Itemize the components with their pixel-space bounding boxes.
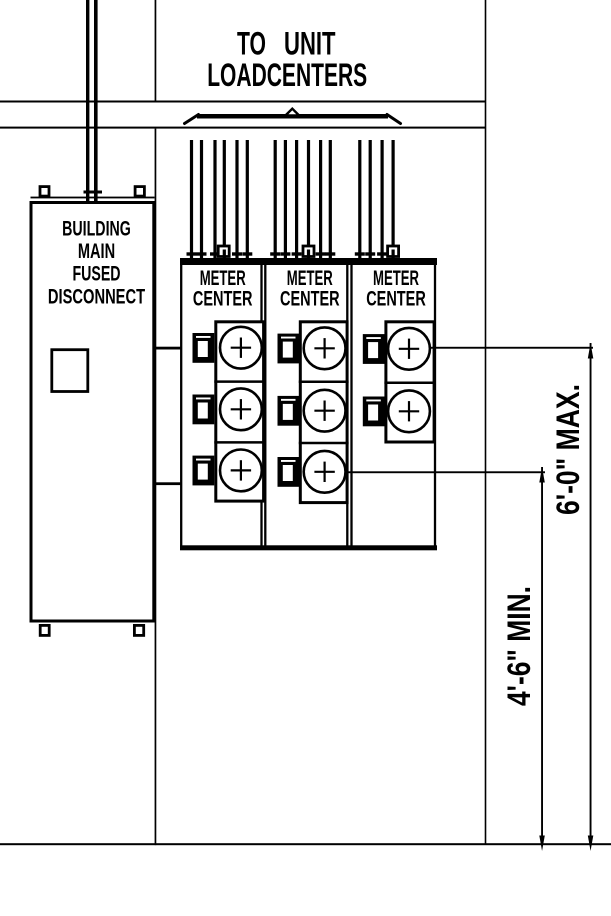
meter center cabinet 1: [181, 262, 261, 547]
meter center top gutter band: [180, 258, 437, 265]
conduit flanges group 3: [355, 252, 387, 255]
hub group 2: [303, 246, 314, 258]
meter center cabinet 3: [352, 262, 436, 547]
meter M8: [388, 390, 430, 432]
feeder stub upper: [155, 347, 182, 350]
dimension leader 6ft: [430, 347, 594, 349]
dimension text 6ft max: [550, 384, 586, 515]
meter M2: [220, 388, 262, 430]
wall line right: [485, 0, 487, 845]
svg-text:LOADCENTERS: LOADCENTERS: [207, 57, 367, 93]
disconnect lug top-right: [135, 187, 144, 197]
svg-text:METER: METER: [200, 267, 246, 290]
branch conduit group 3: [358, 140, 395, 259]
meter M5: [304, 390, 346, 432]
wire ceiling line lower: [0, 127, 486, 129]
disconnect enclosure: [31, 203, 154, 622]
disconnect lug bottom-left: [40, 625, 49, 635]
meter M7: [388, 328, 430, 370]
conduit flanges group 1: [187, 252, 253, 255]
svg-text:CENTER: CENTER: [280, 288, 340, 311]
disconnect lid line: [31, 197, 155, 199]
breaker B8: [363, 397, 385, 427]
breaker B3: [193, 456, 215, 486]
wall line left lower segment: [155, 129, 157, 846]
svg-text:FUSED: FUSED: [72, 263, 120, 286]
disconnect label: [48, 218, 145, 309]
breaker B5: [278, 396, 300, 426]
brace left tail: [185, 115, 199, 124]
floor line: [0, 843, 611, 845]
wall line left upper segment: [155, 0, 157, 101]
svg-text:DISCONNECT: DISCONNECT: [48, 285, 145, 308]
meter center bottom band: [180, 545, 437, 550]
svg-text:4'-6" MIN.: 4'-6" MIN.: [501, 586, 537, 706]
svg-text:CENTER: CENTER: [366, 288, 426, 311]
meter center cabinet 2: [265, 262, 347, 547]
meter M3: [220, 450, 262, 492]
meter stack 2: [299, 322, 349, 503]
service conduit right line: [94, 0, 98, 201]
breaker B1: [193, 333, 215, 363]
svg-text:BUILDING: BUILDING: [62, 218, 131, 241]
title LOADCENTERS: [207, 57, 367, 93]
title TO UNIT: [237, 26, 336, 62]
disconnect lug bottom-right: [134, 625, 143, 635]
breaker B2: [193, 395, 215, 425]
branch conduit group 1: [190, 140, 249, 259]
meter stack 3: [384, 322, 435, 442]
svg-text:MAIN: MAIN: [78, 240, 115, 263]
feeder stub lower: [155, 482, 182, 485]
disconnect handle square: [52, 350, 88, 392]
svg-text:CENTER: CENTER: [193, 288, 253, 311]
brace right tail: [387, 115, 401, 124]
breaker B4: [278, 334, 300, 364]
meter center 2 label: [280, 267, 340, 311]
meter M1: [220, 327, 262, 369]
hub group 3: [388, 246, 399, 258]
wire ceiling line upper: [0, 101, 486, 103]
hub group 1: [218, 246, 229, 258]
brace peak: [285, 109, 299, 116]
meter M6: [304, 451, 346, 493]
dimension text 4ft6 min: [501, 586, 537, 706]
conduit locknut: [84, 191, 103, 194]
conduit flanges group 2: [270, 252, 335, 255]
dimension line 6ft max: [588, 343, 594, 851]
meter center 3 label: [366, 267, 426, 311]
breaker B7: [363, 334, 385, 364]
meter center 1 label: [193, 267, 253, 311]
svg-text:METER: METER: [373, 267, 419, 290]
meter M4: [304, 327, 346, 369]
disconnect lug top-left: [40, 187, 49, 197]
brace bar: [197, 114, 388, 119]
svg-text:METER: METER: [287, 267, 333, 290]
service conduit left line: [86, 0, 89, 201]
meter stack 1: [214, 322, 265, 501]
dimension line 4ft6 min: [539, 467, 545, 851]
breaker B6: [278, 457, 300, 487]
svg-text:6'-0" MAX.: 6'-0" MAX.: [550, 384, 586, 515]
dimension leader 4ft6: [346, 471, 545, 473]
branch conduit group 2: [274, 140, 332, 259]
